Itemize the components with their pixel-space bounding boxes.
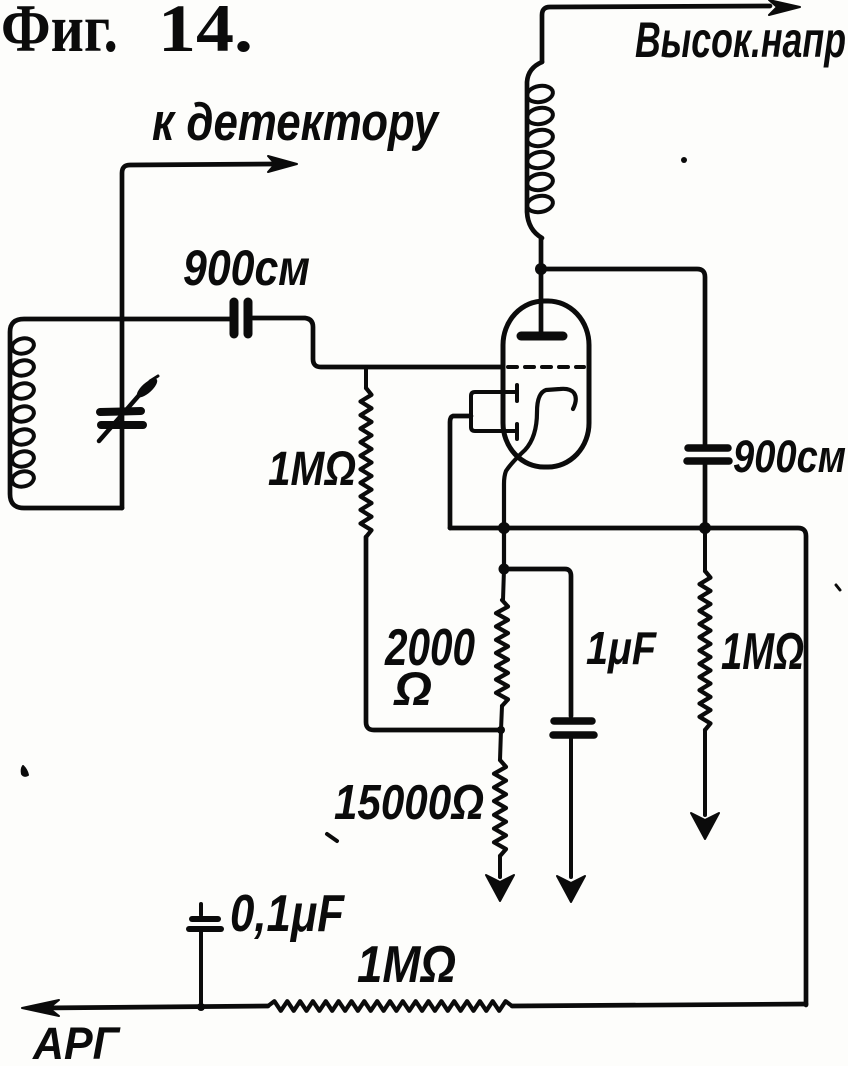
- inductor L2 loops: [526, 84, 554, 214]
- resistor R3 15000 ohm: [500, 730, 501, 760]
- svg-text:1МΩ: 1МΩ: [268, 443, 356, 496]
- svg-text:АРГ: АРГ: [32, 1018, 121, 1066]
- svg-text:1МΩ: 1МΩ: [357, 936, 456, 994]
- resistor R4 1M (right): [700, 571, 711, 730]
- tube U1 envelope: [503, 301, 589, 467]
- arrowhead to detector: [268, 156, 297, 172]
- stray ink speck: [681, 157, 687, 163]
- wire ARG line left: [40, 1006, 268, 1008]
- inductor L2 (anode choke) leads: [527, 62, 542, 238]
- svg-text:14.: 14.: [158, 0, 253, 66]
- wire R1 bottom to cathode node: [366, 537, 501, 730]
- wire cathode tap to C3: [504, 569, 571, 716]
- wire to high voltage: [542, 6, 770, 62]
- arrowhead high voltage: [769, 0, 800, 15]
- svg-text:к детектору: к детектору: [152, 93, 440, 152]
- svg-text:Фиг.: Фиг.: [1, 0, 118, 66]
- node C4 junction: [197, 1003, 205, 1011]
- node anode junction: [535, 263, 547, 275]
- svg-text:Ω: Ω: [393, 662, 432, 715]
- svg-text:900см: 900см: [733, 431, 846, 482]
- stray ink blob: [22, 766, 28, 776]
- wire bus to R4: [703, 528, 707, 571]
- tube heater bracket: [471, 392, 516, 431]
- svg-text:0,1μF: 0,1μF: [230, 885, 345, 943]
- tube anode plate: [521, 332, 563, 341]
- heater tick bottom: [515, 424, 519, 439]
- stray tick mark: [327, 834, 337, 841]
- wire to detector (vertical + horizontal arm): [122, 164, 272, 508]
- wire C2 to bus: [703, 464, 708, 528]
- variable capacitor arrow: [99, 393, 141, 441]
- resistor R2 2000 ohm: [503, 569, 504, 600]
- node R2/R3 junction: [497, 726, 505, 734]
- heater wire down to bus: [450, 416, 471, 528]
- ground arrow R4: [691, 813, 719, 839]
- tube grid (dashed): [508, 365, 584, 369]
- node C2 junction: [699, 522, 711, 534]
- wire C1 to grid (with jog): [253, 318, 501, 367]
- capacitor C4 0.1uF: [199, 904, 203, 915]
- figure caption "Фиг. 14.": [1, 0, 253, 66]
- wire anode branch to C2: [541, 269, 705, 444]
- anode lead: [539, 238, 544, 333]
- bus wire (cathode/heater return) with right drop: [450, 528, 806, 1005]
- svg-text:15000Ω: 15000Ω: [334, 776, 484, 830]
- capacitor C2 900cm: [688, 444, 728, 452]
- capacitor C3 1uF: [554, 717, 592, 725]
- node heater/cathode junction: [498, 522, 510, 534]
- wire R5 to right drop: [512, 1004, 806, 1006]
- tank circuit frame wire: [10, 319, 230, 508]
- ground arrow R3: [486, 875, 514, 901]
- resistor R1 1M (grid leak): [364, 368, 368, 388]
- heater tick top: [515, 385, 519, 401]
- stray ink tick right: [836, 585, 840, 590]
- svg-text:1μF: 1μF: [586, 622, 658, 674]
- node cathode tap: [499, 564, 510, 575]
- svg-text:1МΩ: 1МΩ: [721, 623, 804, 681]
- resistor R5 1M (bottom, horizontal): [268, 1001, 512, 1011]
- ground arrow C3: [557, 876, 585, 902]
- svg-text:900см: 900см: [183, 240, 310, 296]
- arrowhead ARG: [22, 1000, 59, 1016]
- variable capacitor C_t plates: [100, 411, 141, 412]
- capacitor C1 900cm (series coupling): [230, 302, 239, 334]
- inductor L1 (antenna coil): [11, 336, 36, 488]
- tube cathode: [504, 389, 576, 569]
- svg-text:Высок.напр: Высок.напр: [635, 12, 846, 68]
